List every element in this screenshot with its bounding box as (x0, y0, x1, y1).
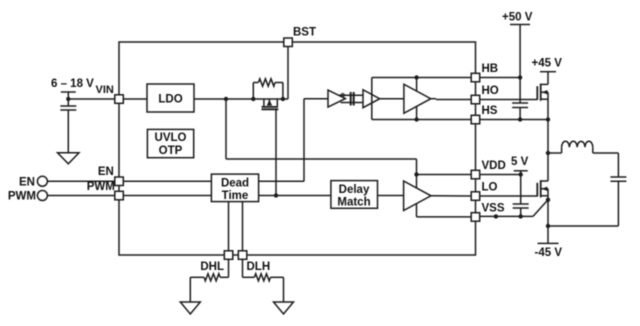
node -45 return (546, 224, 550, 228)
wire LDO to BST column (194, 98, 288, 100)
transistor Q-LO (541, 180, 548, 182)
svg-text:6 – 18 V: 6 – 18 V (51, 78, 94, 90)
node rail bottom (414, 117, 418, 121)
driver high rect (371, 78, 373, 120)
transistor Q-HI (541, 83, 548, 85)
-45V supply (538, 242, 559, 244)
wire VSS external (480, 215, 533, 217)
resistor R-DLH (242, 259, 244, 277)
buffer U1 (inverter) (328, 90, 345, 107)
terminal PWM input (37, 191, 47, 201)
driver high triangle (404, 84, 431, 113)
buffer U2 (363, 90, 380, 108)
pin VDD (471, 170, 480, 179)
pin BST (287, 46, 289, 99)
pin HO (471, 95, 480, 104)
wire DT lower out to Delay Match (259, 195, 331, 197)
transistor Q-BST (bootstrap switch) (263, 99, 265, 107)
wire HO external (480, 99, 538, 101)
driver low triangle (404, 181, 431, 211)
node rail top (414, 75, 418, 79)
node source/diag (546, 198, 550, 202)
svg-text:-45 V: -45 V (535, 247, 563, 259)
wire DM out to driver low (378, 195, 404, 197)
svg-text:VDD: VDD (482, 160, 506, 172)
svg-text:DHL: DHL (200, 261, 224, 273)
pin DHL (224, 251, 233, 259)
UVLO OTP box (147, 129, 193, 157)
6-18V terminal tick (67, 92, 69, 99)
svg-text:LDO: LDO (158, 94, 182, 106)
Dead Time box (211, 174, 258, 202)
svg-text:+50 V: +50 V (502, 12, 533, 24)
pin VSS (471, 213, 480, 222)
svg-text:PWM: PWM (87, 181, 115, 193)
wire VDD internal rail (225, 99, 227, 159)
ground GND1 (58, 153, 80, 164)
level shift lines (339, 94, 363, 96)
svg-text:PWM: PWM (8, 191, 36, 203)
svg-text:Dead: Dead (221, 177, 249, 189)
wire U2 to driver (380, 98, 404, 100)
svg-text:HB: HB (482, 63, 499, 75)
ground GND-DHL (180, 302, 200, 314)
pin HS (471, 115, 480, 124)
svg-text:5 V: 5 V (511, 156, 529, 168)
Delay Match box (331, 181, 378, 209)
terminal EN input (37, 176, 47, 186)
svg-text:VIN: VIN (96, 84, 114, 96)
wire DT upper out to level shifter (259, 180, 304, 182)
wire VIN supply row (68, 98, 147, 100)
svg-text:EN: EN (19, 176, 35, 188)
node VDD/5V (519, 172, 523, 176)
node LDO out (224, 97, 228, 101)
svg-text:EN: EN (98, 166, 114, 178)
node cap/VSS (519, 214, 523, 218)
svg-text:VSS: VSS (482, 203, 505, 215)
svg-text:LO: LO (482, 182, 498, 194)
svg-text:UVLO: UVLO (155, 132, 187, 144)
node resistor right (281, 97, 285, 101)
wire EN (47, 180, 114, 182)
switch node column (547, 120, 549, 154)
svg-text:+45 V: +45 V (532, 58, 563, 70)
node HS/Q-HI source (546, 117, 550, 121)
pin LO (471, 192, 480, 201)
svg-text:Delay: Delay (339, 184, 370, 196)
wire VDD external (480, 174, 521, 176)
wire DT to DLH pin (242, 202, 244, 251)
capacitor C-VIN (67, 99, 69, 106)
pin EN (115, 177, 124, 186)
node gate/PWM wire (274, 193, 278, 197)
resistor R-BST (252, 83, 254, 100)
LDO box (147, 84, 194, 112)
wire HB external (480, 77, 520, 79)
wire LO external (480, 195, 538, 197)
wire DT to DHL pin (228, 202, 230, 251)
svg-text:HS: HS (482, 105, 498, 117)
pin DLH (238, 251, 247, 259)
wire VSS diagonal to source (533, 200, 548, 217)
wire driver low out to LO (431, 195, 471, 197)
pin HB (471, 73, 480, 82)
pin VIN (115, 95, 124, 104)
wire HS external (480, 119, 548, 121)
wire driver out to HO (431, 98, 436, 100)
svg-text:OTP: OTP (159, 145, 183, 157)
wire Q-BST gate lead (275, 109, 277, 195)
svg-text:DLH: DLH (247, 261, 271, 273)
node HS/cap (518, 117, 522, 121)
svg-text:HO: HO (482, 85, 499, 97)
driver low rails (417, 174, 472, 176)
IC boundary (119, 42, 476, 255)
svg-text:BST: BST (293, 27, 316, 39)
capacitor C-LS (350, 92, 352, 106)
node resistor left (251, 97, 255, 101)
node 6-18V junction (66, 97, 70, 101)
node VSS dot (494, 214, 498, 218)
capacitor C-BST (512, 102, 528, 104)
resistor R-DHL (228, 259, 230, 277)
node rail vdd (414, 172, 418, 176)
capacitor C-VDD (513, 203, 529, 205)
pin PWM (115, 191, 124, 200)
capacitor C-OUT (610, 176, 626, 178)
wire PWM (47, 195, 114, 197)
svg-text:Time: Time (222, 190, 249, 202)
svg-text:Match: Match (337, 196, 370, 208)
ground GND-DLH (274, 302, 294, 314)
inductor L1 (548, 152, 562, 154)
node switch/inductor (546, 151, 550, 155)
node HB/+50 (518, 75, 522, 79)
